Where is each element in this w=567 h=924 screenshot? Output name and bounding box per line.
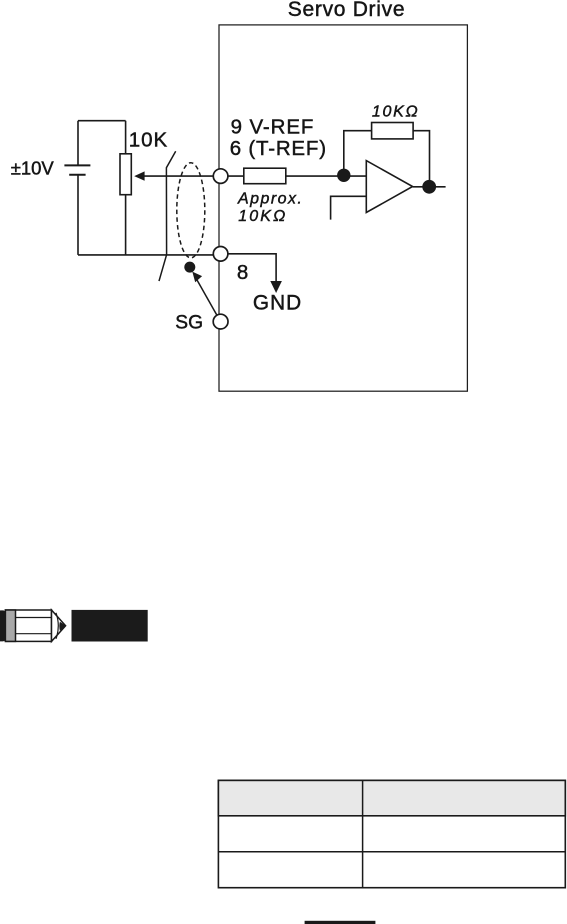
svg-text:GND: GND — [253, 291, 302, 314]
svg-text:10KΩ: 10KΩ — [238, 208, 287, 225]
svg-text:8: 8 — [237, 261, 248, 284]
svg-text:±10V: ±10V — [11, 158, 55, 179]
svg-text:10K: 10K — [129, 128, 168, 151]
svg-text:Servo Drive: Servo Drive — [288, 0, 405, 21]
svg-text:10KΩ: 10KΩ — [372, 104, 419, 121]
svg-text:Approx.: Approx. — [237, 191, 303, 208]
svg-text:SG: SG — [175, 312, 203, 333]
svg-text:6 (T-REF): 6 (T-REF) — [230, 137, 327, 160]
svg-text:9 V-REF: 9 V-REF — [231, 115, 315, 138]
